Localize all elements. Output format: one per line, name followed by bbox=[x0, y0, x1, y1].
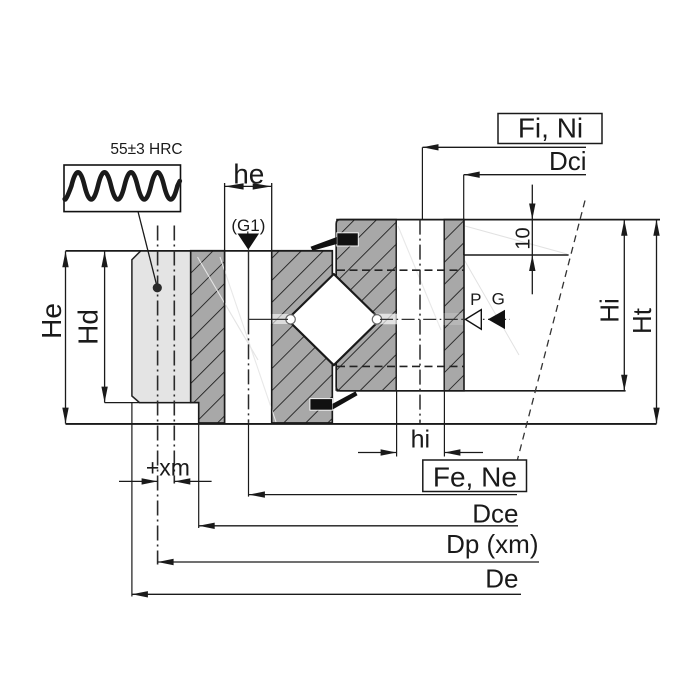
bottom mounting plane line bbox=[66, 423, 657, 425]
dimension Hd bbox=[73, 251, 108, 402]
gear pitch axis (Dp) bbox=[157, 226, 159, 565]
dimension he bbox=[225, 158, 272, 189]
svg-text:10: 10 bbox=[513, 227, 535, 249]
top seal lip bbox=[311, 237, 337, 251]
outer hole wall right extension (he) bbox=[271, 183, 273, 423]
svg-text:Dce: Dce bbox=[472, 498, 518, 528]
svg-text:55±3 HRC: 55±3 HRC bbox=[110, 141, 182, 158]
raceway hidden line bottom bbox=[337, 365, 464, 367]
label box Fe, Ne bbox=[423, 460, 527, 492]
svg-text:Fe, Ne: Fe, Ne bbox=[433, 461, 517, 492]
section plane dashed diagonal bbox=[518, 201, 586, 460]
roller centerline left segment bbox=[249, 318, 289, 320]
roller (diamond) bbox=[287, 274, 380, 365]
inner ring bottom face line bbox=[337, 390, 626, 392]
faint streak in inner hole bbox=[398, 226, 441, 330]
dimension +xm bbox=[119, 454, 212, 484]
dimension line De bbox=[132, 403, 521, 598]
dimension line Fe, Ne bbox=[249, 423, 518, 498]
dimension He bbox=[36, 251, 69, 423]
inner bolt hole wall left bbox=[395, 220, 397, 391]
dimension line Fi, Ni bbox=[422, 144, 586, 220]
outer hole wall left extension (he) bbox=[224, 183, 226, 423]
gear rim bottom line bbox=[105, 402, 199, 404]
roller tip circle right bbox=[372, 315, 381, 324]
inner ring top face line bbox=[336, 219, 660, 221]
outer ring right hatched block bbox=[272, 251, 333, 423]
svg-text:He: He bbox=[36, 303, 67, 339]
faint streak in outer hole bbox=[198, 257, 259, 360]
highlight streak right of roller bbox=[379, 314, 398, 324]
dimension hi bbox=[358, 391, 483, 457]
svg-text:Fi, Ni: Fi, Ni bbox=[518, 112, 583, 143]
svg-text:he: he bbox=[233, 158, 264, 189]
outer ring left hatched band bbox=[191, 251, 225, 423]
roller tip circle left bbox=[286, 315, 295, 324]
svg-text:G: G bbox=[492, 289, 505, 308]
faint streak in outer hole 2 bbox=[220, 257, 276, 422]
svg-text:Hi: Hi bbox=[595, 298, 625, 323]
plug symbol P bbox=[465, 310, 481, 330]
svg-text:+xm: +xm bbox=[146, 454, 190, 480]
ring gap inner face bbox=[335, 224, 337, 391]
raceway hidden line top bbox=[337, 269, 464, 271]
dimension line Dci bbox=[464, 172, 586, 256]
grease symbol G bbox=[488, 310, 505, 329]
dimension Hi bbox=[595, 220, 628, 391]
outer ring top face line bbox=[66, 250, 333, 252]
svg-text:Dp (xm): Dp (xm) bbox=[446, 529, 538, 559]
svg-text:P: P bbox=[470, 290, 481, 309]
svg-text:Ht: Ht bbox=[627, 307, 657, 334]
highlight streak left of roller bbox=[266, 314, 289, 324]
faint streak in rim bbox=[140, 252, 190, 340]
leader line to gear bbox=[138, 212, 157, 285]
highlight band across inner ring bbox=[337, 313, 463, 325]
inner ring bolt hole (white) bbox=[397, 219, 444, 392]
leader dot bbox=[153, 283, 162, 292]
label (G1) with datum triangle bbox=[231, 216, 265, 250]
inner bolt hole axis bbox=[419, 220, 421, 423]
faint phantom line upper step bbox=[465, 226, 567, 254]
ring gap outer face bbox=[331, 251, 333, 423]
gear hardness detail box bbox=[64, 165, 181, 212]
dimension Ht bbox=[627, 220, 660, 424]
top seal retainer bar bbox=[337, 233, 359, 246]
step line 10 deep bbox=[464, 254, 569, 256]
dimension 10 bbox=[513, 185, 536, 295]
svg-text:De: De bbox=[485, 563, 518, 593]
dimension line Dp (xm) bbox=[158, 529, 539, 565]
outer bolt hole axis (G1) bbox=[248, 250, 250, 320]
bottom seal retainer bar bbox=[310, 399, 333, 411]
faint phantom line lower step bbox=[462, 256, 519, 355]
label box Fi, Ni bbox=[498, 112, 602, 143]
dimension line Dce bbox=[199, 403, 519, 529]
svg-text:hi: hi bbox=[411, 426, 430, 454]
svg-text:Dci: Dci bbox=[549, 146, 587, 176]
bottom seal lip bbox=[333, 391, 358, 409]
svg-text:Hd: Hd bbox=[73, 309, 104, 345]
gear rim (toothed section, unhatched) bbox=[132, 251, 191, 403]
inner bolt hole wall right bbox=[443, 220, 445, 391]
roller centerline right segment bbox=[380, 318, 510, 320]
gear xm axis bbox=[173, 226, 175, 484]
inner ring hatched block bbox=[336, 220, 464, 391]
